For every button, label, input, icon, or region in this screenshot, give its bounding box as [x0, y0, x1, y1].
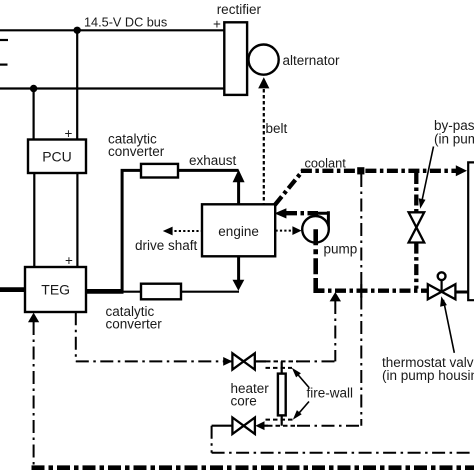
- heater feed line: [76, 360, 232, 362]
- bottom thin return line: [212, 452, 474, 454]
- wire PCU to TEG right: [76, 173, 78, 267]
- dotted drive to pump: [276, 230, 295, 232]
- pointer to by-pass valve: [422, 147, 434, 203]
- TEG box: [25, 267, 86, 312]
- pointer to thermostat valve: [443, 300, 454, 353]
- heater outlet valve: [232, 418, 243, 435]
- svg-text:14.5-V DC bus: 14.5-V DC bus: [84, 16, 167, 30]
- svg-text:+: +: [65, 253, 73, 268]
- coolant pump suction line: [314, 289, 428, 293]
- coolant diagonal from engine corner: [275, 171, 303, 205]
- pipe valve to fire-wall: [255, 360, 266, 362]
- thermostat to radiator link: [455, 291, 468, 294]
- exhaust pipe thick into TEG from left: [0, 287, 25, 292]
- coolant arrow into radiator: [456, 165, 467, 176]
- pump down pipe: [313, 229, 318, 278]
- by-pass valve riser lower: [414, 243, 418, 289]
- svg-text:drive shaft: drive shaft: [135, 238, 198, 253]
- coolant arrow up into TEG bottom: [28, 313, 39, 323]
- arrow out of heater core (left): [255, 421, 264, 430]
- thermostat valve: [428, 284, 442, 299]
- svg-text:PCU: PCU: [42, 149, 72, 165]
- svg-text:(in pump: (in pump: [434, 132, 474, 147]
- belt arrowhead to alternator: [258, 77, 269, 88]
- pointer fire-wall upper: [297, 373, 310, 388]
- PCU box: [28, 140, 86, 174]
- svg-text:TEG: TEG: [41, 282, 70, 298]
- engine box: [202, 204, 275, 256]
- radiator box (cut off): [468, 162, 474, 300]
- fire-wall mark upper: [266, 367, 293, 369]
- wire bus to PCU (+): [76, 30, 78, 139]
- svg-text:rectifier: rectifier: [217, 2, 262, 17]
- drive shaft arrowhead: [163, 227, 173, 236]
- exhaust arrow up from engine: [237, 181, 240, 204]
- battery terminal tick bottom: [0, 63, 8, 65]
- pump outlet corner: [318, 211, 328, 229]
- coolant branch down x=361: [360, 174, 362, 426]
- arrow into engine right edge: [274, 208, 286, 218]
- crossing dash at suction line: [360, 285, 362, 298]
- wire PCU to TEG left: [33, 173, 35, 267]
- thermostat stem: [441, 280, 443, 291]
- svg-text:alternator: alternator: [283, 53, 341, 68]
- heater core outlet: [281, 415, 283, 425]
- fire-wall mark lower: [266, 419, 293, 421]
- node junction on lower bus: [30, 85, 37, 92]
- heater inlet valve: [232, 353, 243, 369]
- TEG coolant outlet down: [75, 312, 77, 361]
- alternator circle: [249, 45, 279, 75]
- pump down pipe corner: [316, 278, 324, 291]
- battery terminal tick top: [0, 39, 8, 41]
- heater return left segment: [212, 425, 233, 427]
- exhaust arrow down from engine: [237, 257, 240, 282]
- coolant top line: [301, 169, 457, 173]
- node junction square on coolant line: [357, 167, 364, 174]
- pipe dashed through fire-wall (top): [266, 360, 298, 362]
- pointer fire-wall lower: [298, 402, 310, 415]
- svg-text:exhaust: exhaust: [189, 153, 237, 168]
- exhaust pipe thick TEG to riser: [86, 289, 124, 294]
- exhaust riser and top run: [122, 170, 238, 292]
- svg-text:coolant: coolant: [305, 156, 347, 171]
- svg-text:core: core: [231, 394, 257, 409]
- pump circle: [302, 216, 329, 243]
- by-pass valve: [409, 212, 425, 227]
- svg-text:converter: converter: [106, 317, 163, 332]
- pipe dashed through fire-wall (bottom): [268, 425, 298, 427]
- heater return riser x=335: [334, 301, 336, 361]
- wire lower DC bus: [0, 87, 224, 89]
- heater return corner down: [211, 426, 213, 453]
- thermostat knob circle: [438, 272, 446, 280]
- arrow into heater valve: [223, 357, 232, 366]
- arrow up into suction line: [330, 292, 341, 301]
- svg-text:fire-wall: fire-wall: [307, 386, 354, 401]
- belt dashed line: [263, 89, 265, 204]
- heater feed right portion: [297, 360, 335, 362]
- by-pass valve riser upper: [414, 173, 418, 212]
- wire bus to PCU (-): [32, 89, 34, 140]
- svg-text:(in pump housing): (in pump housing): [382, 368, 474, 383]
- heater return right portion: [297, 425, 361, 427]
- svg-text:converter: converter: [108, 144, 165, 159]
- arrowhead into pump: [292, 226, 301, 235]
- svg-text:engine: engine: [218, 224, 259, 239]
- pipe valve to fire-wall (bottom): [263, 425, 268, 427]
- drive shaft dotted line: [170, 230, 202, 232]
- catalytic converter (top): [141, 164, 178, 178]
- node junction on top bus: [74, 27, 81, 34]
- heater core drop: [281, 361, 283, 374]
- coolant return riser to TEG: [33, 322, 35, 466]
- coolant pump-to-engine line: [286, 211, 318, 215]
- rectifier box: [224, 22, 247, 95]
- coolant bottom thick line: [32, 465, 474, 470]
- wire 14.5-V DC bus (top): [0, 29, 224, 31]
- svg-text:pump: pump: [324, 242, 358, 257]
- exhaust lower run: [121, 291, 239, 293]
- svg-text:belt: belt: [266, 121, 288, 136]
- svg-text:+: +: [213, 17, 221, 32]
- catalytic converter (bottom): [141, 284, 181, 300]
- heater core: [278, 374, 286, 416]
